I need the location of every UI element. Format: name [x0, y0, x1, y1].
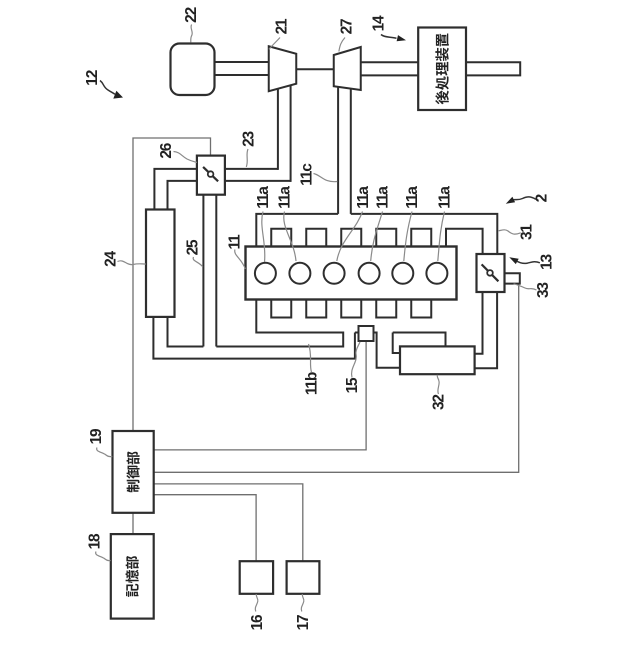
- compressor 21: [269, 46, 297, 91]
- svg-text:13: 13: [539, 254, 556, 270]
- wire: control line to valve 26: [133, 138, 211, 431]
- wire: signal sensor 16 to control 19: [154, 495, 256, 562]
- svg-text:15: 15: [344, 377, 361, 393]
- svg-text:11a: 11a: [355, 186, 372, 209]
- svg-text:27: 27: [339, 19, 356, 34]
- exhaust stub 1: [271, 229, 291, 247]
- wire: turbine inlet duct 11c: [338, 86, 351, 214]
- wire: signal sensor 17 to control 19: [154, 484, 303, 561]
- pressure sensor 15: [359, 326, 374, 341]
- intake stub 1: [271, 300, 291, 318]
- svg-text:2: 2: [534, 194, 551, 202]
- svg-text:11: 11: [227, 234, 244, 250]
- svg-text:18: 18: [87, 533, 104, 549]
- svg-text:14: 14: [371, 15, 388, 31]
- wire: intercooler bypass pipe 25: [203, 195, 216, 347]
- svg-text:31: 31: [519, 224, 536, 240]
- intake stub 5: [411, 300, 431, 318]
- cylinder 3: [324, 263, 345, 284]
- wire: intake manifold bottom middle to EGR junction: [355, 333, 400, 368]
- wire: duct air cleaner 22 to compressor 21: [215, 62, 270, 75]
- wire: exhaust manifold outer boundary: [256, 214, 497, 254]
- exhaust stub 3: [341, 229, 361, 247]
- svg-text:17: 17: [295, 615, 312, 630]
- svg-text:22: 22: [183, 7, 200, 22]
- svg-text:26: 26: [158, 142, 175, 158]
- turbine 27: [334, 47, 361, 90]
- sensor 17: [287, 561, 320, 594]
- exhaust stub 4: [376, 229, 396, 247]
- control unit 19: [113, 431, 154, 513]
- wire: exhaust manifold inner boundary right: [446, 229, 483, 254]
- EGR valve 13: [477, 254, 505, 292]
- svg-text:16: 16: [249, 614, 266, 630]
- cylinder 5: [392, 263, 413, 284]
- wire: EGR duct valve 13 to cooler 32: [475, 292, 498, 368]
- wire: EGR inlet inner boundary: [393, 333, 400, 354]
- wire: compressor outlet duct down: [278, 84, 291, 182]
- wire: intake manifold left and bottom boundary: [168, 300, 344, 347]
- wire: duct valve 26 to intercooler 24: [154, 169, 197, 210]
- cylinder 1: [255, 263, 276, 284]
- cylinder 4: [359, 263, 380, 284]
- svg-text:11a: 11a: [404, 186, 421, 209]
- wire: charge pipe 11b bottom boundary: [153, 317, 355, 359]
- wire: signal sensor 15 to control 19: [154, 341, 366, 450]
- storage unit 18: [111, 534, 154, 619]
- svg-text:19: 19: [88, 428, 105, 444]
- intercooler 24: [146, 210, 175, 317]
- svg-text:11a: 11a: [255, 186, 272, 209]
- air cleaner 22: [171, 44, 215, 96]
- wire: duct turbine 27 to aftertreatment 14: [360, 62, 418, 75]
- svg-text:24: 24: [102, 251, 119, 267]
- wire: shaft between compressor 21 and turbine 27: [295, 68, 335, 70]
- svg-text:33: 33: [535, 282, 552, 298]
- wire: tailpipe from aftertreatment 14: [466, 61, 520, 76]
- intake stub 3: [341, 300, 361, 318]
- sensor 16: [240, 561, 273, 594]
- svg-text:21: 21: [274, 18, 291, 34]
- svg-text:11a: 11a: [375, 186, 392, 209]
- cylinder 2: [289, 263, 310, 284]
- svg-text:11a: 11a: [437, 186, 454, 209]
- cylinder 6: [426, 263, 447, 284]
- svg-text:12: 12: [84, 70, 101, 85]
- aftertreatment device 14: [418, 28, 466, 111]
- svg-text:11a: 11a: [277, 186, 294, 209]
- EGR cooler 32: [400, 346, 475, 374]
- svg-text:23: 23: [241, 131, 258, 147]
- svg-text:11c: 11c: [299, 163, 316, 186]
- wire: link control 19 storage 18: [132, 513, 134, 534]
- wire: intake manifold bottom right: [393, 333, 446, 347]
- intake stub 4: [376, 300, 396, 318]
- sensor stub 33: [505, 273, 520, 283]
- bypass valve 26: [197, 156, 225, 195]
- engine 11: [246, 247, 457, 300]
- svg-text:25: 25: [185, 239, 202, 255]
- intake stub 2: [306, 300, 326, 318]
- svg-text:32: 32: [431, 395, 448, 410]
- exhaust stub 5: [411, 229, 431, 247]
- svg-text:11b: 11b: [304, 372, 321, 395]
- wire: signal sensor 33 to control 19: [154, 284, 519, 473]
- exhaust stub 2: [306, 229, 326, 247]
- wire: pipe 23 compressor to valve 26: [225, 169, 291, 181]
